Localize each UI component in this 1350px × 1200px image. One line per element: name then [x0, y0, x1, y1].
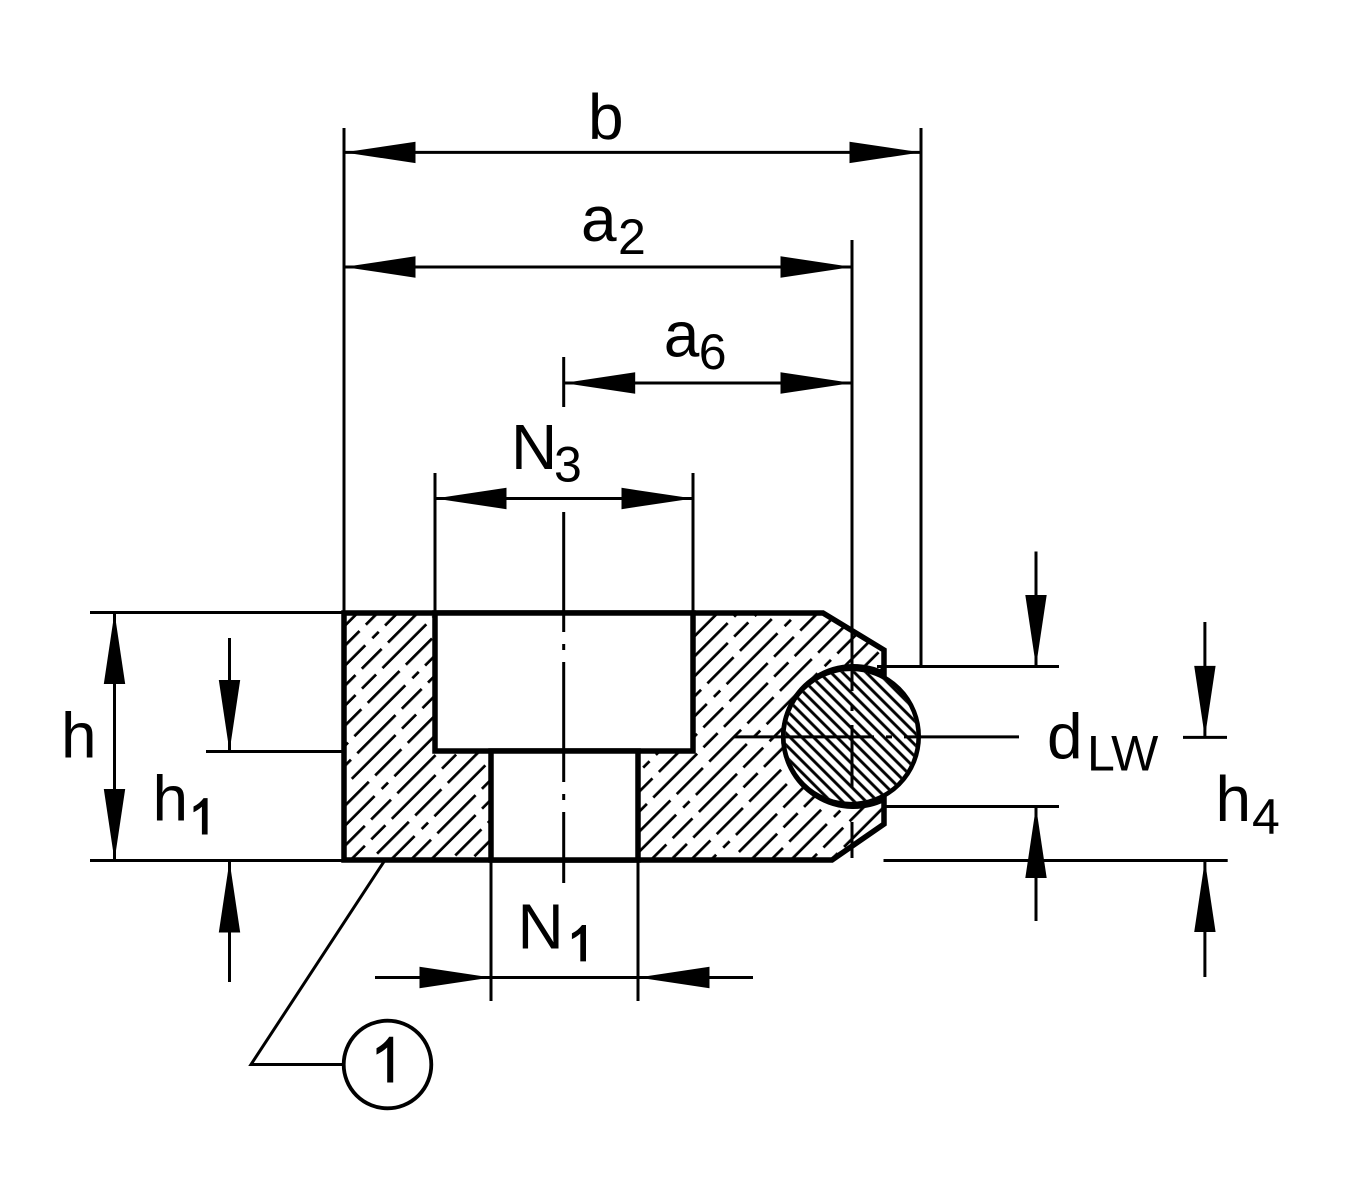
leader + balloon 1 [251, 862, 431, 1109]
dimension a6 [564, 372, 852, 393]
slot N1 (white) [491, 751, 638, 860]
carriage body cross-section (hatched) [344, 613, 884, 860]
dimension h4 [1183, 622, 1227, 977]
dimension N1 [375, 967, 753, 988]
dimension h [104, 613, 125, 861]
dimension b [344, 142, 921, 163]
svg-text:d: d [1047, 701, 1083, 773]
counterbore recess N3 (white) [435, 613, 693, 751]
svg-text:6: 6 [699, 324, 727, 380]
dimension h1 [219, 638, 240, 982]
svg-text:3: 3 [554, 437, 582, 493]
dimension N3 [435, 488, 693, 509]
svg-text:a: a [664, 298, 700, 370]
svg-text:a: a [581, 183, 617, 255]
svg-text:b: b [588, 81, 624, 153]
svg-text:2: 2 [618, 209, 646, 265]
svg-text:h: h [1216, 763, 1252, 835]
svg-text:N: N [511, 411, 557, 483]
dimension a2 [344, 256, 852, 277]
ball (hatched) [783, 669, 918, 804]
svg-text:N: N [518, 891, 564, 963]
extension lines [90, 128, 1228, 1001]
dimension dLW [1025, 552, 1046, 922]
svg-text:4: 4 [1252, 789, 1280, 845]
svg-text:LW: LW [1087, 726, 1159, 782]
svg-text:h: h [61, 699, 97, 771]
svg-text:h: h [153, 763, 189, 835]
